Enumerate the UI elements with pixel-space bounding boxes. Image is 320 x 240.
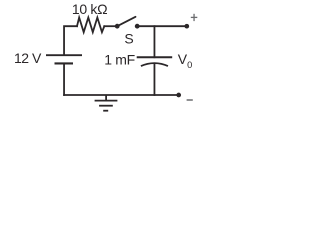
svg-text:S: S	[124, 30, 133, 46]
plus terminal mark	[191, 14, 198, 21]
switch S throw dot	[135, 24, 140, 29]
wire bottom rail	[64, 94, 179, 96]
svg-text:12 V: 12 V	[14, 50, 42, 66]
wire capacitor branch down	[153, 26, 155, 57]
wire top-left corner segment	[64, 26, 77, 55]
svg-text:10 kΩ: 10 kΩ	[72, 1, 107, 17]
switch S blade	[117, 17, 135, 26]
resistor R1 zigzag	[77, 18, 104, 33]
svg-text:1 mF: 1 mF	[104, 52, 135, 68]
switch S pole dot	[115, 24, 120, 29]
capacitor C1 top plate	[137, 56, 173, 58]
wire switch throw to node A	[137, 25, 187, 27]
wire battery negative down	[63, 63, 65, 95]
wire below capacitor	[153, 65, 155, 95]
capacitor C1 curved bottom plate	[141, 63, 168, 66]
battery V1 positive plate	[46, 54, 82, 56]
svg-text:0: 0	[187, 60, 192, 70]
battery V1 negative plate	[55, 62, 74, 64]
node A dot top right	[184, 24, 189, 29]
wire resistor to switch pole	[104, 25, 117, 27]
minus terminal mark	[187, 99, 193, 101]
node B dot bottom right	[176, 93, 181, 98]
ground symbol	[95, 95, 118, 111]
